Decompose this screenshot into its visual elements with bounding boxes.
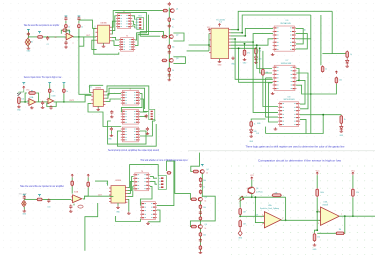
capacitor op2b fb — [49, 105, 52, 109]
wire mic bottom — [27, 45, 29, 48]
VCC arrow 555 — [218, 24, 220, 27]
wire vcc line to IC10 — [95, 181, 108, 186]
svg-text:10k: 10k — [266, 72, 269, 74]
connector SV3 — [158, 176, 166, 190]
op-amp IC9A — [71, 195, 82, 203]
wire T4 to SV2 b — [140, 115, 147, 117]
wire mic2 top — [23, 199, 25, 202]
wire T7 right loop — [148, 210, 160, 222]
IC IC4 LM386 — [91, 90, 105, 107]
wire Q4 chain down — [201, 174, 203, 198]
wire T1 to SV1 a — [132, 16, 136, 19]
wire T3 to T4 loop — [121, 94, 142, 112]
capacitor C3 — [64, 41, 67, 45]
svg-text:1u: 1u — [172, 27, 174, 29]
junction bus 4 — [234, 38, 236, 40]
wire tick to R14 — [63, 84, 65, 88]
resistor R37 — [313, 233, 316, 242]
resistor R10 — [168, 67, 171, 73]
LED D4 — [250, 127, 253, 134]
IC IC6 SN74AC04N — [273, 26, 296, 51]
supply tick rail op2b — [48, 83, 51, 85]
op-amp IC3A — [27, 99, 35, 106]
ground D4 — [249, 135, 253, 138]
light arrows — [239, 196, 244, 201]
wire rail1 — [65, 21, 67, 24]
wire IC6 loop a — [296, 28, 304, 44]
resistor R15 — [243, 49, 246, 57]
wire bus2 branch — [320, 15, 322, 65]
decoration op3 loop — [78, 205, 83, 208]
junction bus 2 — [241, 32, 243, 34]
resistor R24 — [167, 172, 172, 175]
svg-text:47k: 47k — [247, 52, 250, 54]
svg-text:C13: C13 — [47, 207, 50, 209]
wire 555 left rail — [208, 34, 210, 51]
svg-text:10k: 10k — [203, 180, 206, 182]
resistor R14 — [63, 88, 66, 94]
junction fb node — [316, 229, 318, 231]
wire 555 to IC6 pin b — [231, 34, 273, 43]
svg-text:1k: 1k — [206, 173, 208, 175]
wire T4 to SV2 — [140, 111, 147, 113]
ground C14 — [69, 210, 73, 213]
ground op2a — [30, 106, 34, 109]
capacitor C12 — [146, 127, 149, 131]
resistor R13 — [48, 88, 51, 94]
wire input to op-amp2a — [20, 101, 29, 103]
wire big bottom loop — [266, 115, 324, 134]
op-amp IC2A — [65, 33, 73, 40]
op-amp U1A — [263, 212, 281, 228]
wire op-amp to C3 — [65, 41, 67, 42]
svg-text:Q_Photo: Q_Photo — [256, 191, 263, 194]
wire bus to IC7 b — [260, 48, 272, 73]
wire stub IC7 c — [266, 77, 272, 79]
wire LED chain top — [251, 119, 265, 121]
wire IC4 left to T5 — [88, 104, 121, 127]
IC IC8 SN74LS164N — [278, 102, 300, 127]
junction 555 b — [238, 47, 240, 49]
junction op out — [285, 219, 287, 221]
wire stub left R17 — [322, 53, 332, 55]
resistor R19 — [340, 115, 343, 125]
wire 555 bus 2 — [231, 15, 311, 33]
VCC arrow R35 — [352, 172, 354, 175]
capacitor rail1 — [64, 17, 67, 21]
svg-text:1u: 1u — [203, 187, 205, 189]
wire divider to op-amp — [240, 215, 264, 217]
svg-text:1k9: 1k9 — [243, 211, 246, 213]
ground C12 — [146, 132, 150, 135]
wire IC7 out to rail — [296, 85, 311, 94]
resistor R32 1k9 — [239, 207, 242, 215]
svg-text:Second input circuit. The inpu: Second input circuit. The input is high … — [24, 75, 62, 79]
wire R34 down — [316, 197, 318, 230]
wire feedback right — [341, 216, 345, 233]
svg-text:6: 6 — [318, 223, 319, 225]
wire bottom loop left up — [265, 127, 267, 134]
wire T3 to SV2 — [140, 99, 149, 111]
op-amp IC3B — [47, 98, 54, 103]
wire IC4 gnd — [97, 106, 99, 108]
wire IC6 to bus2 — [296, 15, 311, 39]
wire photo emitter — [251, 194, 253, 197]
wire IC10 to T6 b — [127, 182, 133, 194]
wire bus to IC8 d — [268, 83, 278, 122]
wire feedback down — [285, 197, 287, 220]
transistor Q3 — [169, 59, 173, 63]
junction mix node — [78, 36, 80, 38]
resistor R9 — [161, 59, 167, 62]
ground C11 — [110, 134, 114, 137]
wire IC4 left up — [90, 85, 104, 92]
VCC arrow 555 left — [208, 29, 210, 32]
wire stub IC7 d — [268, 82, 272, 84]
microphone MIC1 — [25, 38, 31, 46]
wire right rail to T7 — [157, 161, 174, 206]
wire IC1 left loop to T2 bottom — [94, 29, 119, 55]
wire op2a to op2b — [36, 101, 48, 103]
wire R35 down — [352, 197, 354, 216]
transformer T5 — [121, 127, 140, 142]
capacitor C16 — [199, 211, 202, 215]
junction photo b — [255, 196, 257, 198]
svg-text:1k: 1k — [52, 91, 54, 93]
wire op2a feedback left — [25, 93, 27, 102]
junction plus node — [316, 211, 318, 213]
wire input A to 555 — [189, 44, 209, 46]
wire tick to R13 — [49, 84, 51, 88]
svg-text:LM386: LM386 — [115, 180, 121, 182]
wire R1 to op-amp — [43, 36, 66, 38]
transformer T2 — [119, 38, 135, 52]
svg-text:SN74AC04N: SN74AC04N — [280, 22, 291, 25]
ground IC7 — [271, 92, 275, 95]
svg-text:o: o — [73, 43, 74, 45]
wire op2a feedback right — [36, 93, 39, 102]
supply tick R21 — [38, 195, 41, 197]
wire op3 out to IC10 — [83, 196, 111, 199]
wire IC1 to T1 pin1 — [112, 16, 117, 31]
wire T2 loop to top — [115, 12, 146, 40]
wire mic2 to R21 — [24, 198, 37, 200]
wire IC7 loop a — [296, 69, 299, 81]
svg-text:1k: 1k — [344, 119, 346, 121]
svg-text:1k: 1k — [350, 54, 352, 56]
LED D3 — [340, 125, 343, 130]
svg-text:1k: 1k — [254, 123, 256, 125]
resistor R2 feedback — [62, 29, 68, 32]
svg-text:Take the sound file we inputte: Take the sound file we inputted to our a… — [20, 185, 64, 188]
transformer T4 — [121, 109, 140, 124]
svg-text:Three logic gates and a shift: Three logic gates and a shift register a… — [246, 146, 346, 149]
wire left into chain mid — [140, 31, 163, 36]
wire rail1 to op-amp — [65, 29, 67, 33]
wire U1A out to U1B — [281, 219, 321, 222]
resistor R22 — [71, 180, 74, 187]
resistor R30b — [199, 245, 202, 251]
VCC arrow photo — [251, 177, 253, 180]
resistor R31 22k — [272, 194, 282, 197]
wire left rail into Q5 — [167, 161, 192, 199]
svg-text:1.2k: 1.2k — [356, 192, 359, 194]
junction R14 out — [63, 101, 65, 103]
svg-text:LM386: LM386 — [100, 23, 107, 25]
wire T6 to T7 — [140, 187, 152, 206]
wire feedback left — [61, 30, 62, 34]
wire 555 out top bus — [231, 11, 333, 29]
resistor R33 1k9 — [239, 219, 242, 228]
ground C3 — [64, 45, 68, 48]
wire Q2 loop right — [173, 33, 184, 41]
wire IC1 to T1 pin3 — [112, 21, 117, 34]
wire R24 up — [166, 161, 168, 171]
svg-text:1k: 1k — [205, 228, 207, 230]
wire T6 to SV3 b — [150, 182, 157, 185]
LED D1 — [254, 55, 257, 61]
wire bus to IC8 c — [266, 78, 278, 117]
junction IC7 — [298, 80, 300, 82]
connector SV1 — [135, 18, 143, 30]
wire T1 to SV1 b — [132, 21, 136, 24]
junction feedback tap — [344, 215, 346, 217]
svg-text:Q1: Q1 — [176, 8, 178, 10]
wire T1 to SV1 c — [132, 26, 136, 28]
wire VCC to photo — [251, 180, 253, 187]
ground D3 — [340, 130, 344, 133]
svg-text:2: 2 — [262, 214, 263, 216]
ground mic — [27, 47, 31, 50]
wire U1B output — [339, 215, 375, 217]
svg-text:3: 3 — [262, 223, 263, 225]
transformer T1 — [116, 14, 132, 29]
wire R20 to rail — [311, 84, 337, 94]
wire bus to IC7 a — [257, 45, 272, 68]
resistor R8 — [168, 44, 171, 50]
feedback loop op2b — [47, 102, 56, 107]
wire 555 down to IC7 a — [231, 39, 273, 79]
capacitor C2 — [46, 36, 49, 40]
svg-text:10k: 10k — [203, 207, 206, 209]
svg-text:Q4: Q4 — [206, 169, 208, 171]
resistor R27b — [199, 216, 202, 221]
ground diamond R33 — [238, 228, 242, 236]
capacitor C7 — [168, 73, 171, 77]
wire long L down — [85, 203, 98, 251]
svg-text:Q6: Q6 — [256, 188, 258, 190]
quadrant boundary line — [188, 150, 375, 152]
resistor R36 1M — [335, 232, 345, 235]
wire VCC to switch — [19, 89, 24, 93]
op-amp U1B — [319, 207, 339, 225]
svg-text:Sparkfun_Dual_OpAmp: Sparkfun_Dual_OpAmp — [260, 207, 279, 210]
transistor Q1 — [170, 9, 174, 13]
wire T5 left big loop — [117, 124, 156, 146]
svg-text:LM386: LM386 — [95, 87, 101, 89]
wire op3 gnd stub — [73, 204, 75, 206]
svg-text:10k: 10k — [339, 80, 342, 82]
wire IC4 to T3 b — [105, 99, 121, 101]
wire IC4 top loop — [105, 86, 148, 109]
ground IC8 — [274, 127, 278, 130]
capacitor C16b — [199, 238, 202, 242]
ground R15 — [243, 58, 247, 61]
wire IC10 to T6 c — [127, 187, 133, 197]
ground Q6 chain — [199, 251, 203, 254]
wire R21 to op-amp3 — [43, 198, 72, 200]
ground IC4 — [96, 108, 100, 111]
svg-text:SN74HC08N: SN74HC08N — [281, 63, 292, 65]
svg-text:M1: M1 — [31, 41, 33, 43]
resistor R29 — [190, 225, 197, 228]
capacitor mic2 — [23, 195, 26, 199]
resistor R25 — [192, 170, 199, 173]
supply tick rail1 — [65, 16, 68, 18]
wire photo node right — [252, 196, 286, 198]
ground IC1 — [102, 45, 106, 48]
wire IC1 to chain top — [112, 11, 164, 28]
wire IC10 gnd — [117, 203, 119, 206]
wire left chain lower — [140, 35, 160, 37]
wire T2 second loop — [135, 15, 149, 46]
wire into Q2 — [162, 36, 168, 38]
wire IC4 second loop — [105, 88, 144, 109]
ground 555 side — [231, 57, 235, 60]
junction divider — [239, 215, 241, 217]
capacitor rail2 — [77, 17, 80, 21]
resistor R4 — [78, 23, 81, 28]
capacitor C9 — [110, 110, 113, 114]
wire Q6 chain down — [199, 229, 201, 251]
wire from top into Q4 — [191, 153, 200, 172]
wire IC1 to T2 pin2 — [112, 41, 120, 46]
svg-text:Second amp circuit, amplifies: Second amp circuit, amplifies the noise … — [108, 149, 160, 152]
capacitor C11 — [110, 127, 113, 131]
wire mic to R1 — [28, 36, 37, 38]
svg-text:1: 1 — [282, 218, 283, 220]
svg-text:1k: 1k — [81, 26, 83, 28]
wire IC8 pin right — [300, 114, 312, 116]
resistor R12 — [18, 96, 21, 104]
resistor R18 — [321, 65, 324, 73]
resistor R39 — [250, 121, 253, 128]
svg-text:1k: 1k — [325, 69, 327, 71]
wire IC7 to IC8 — [299, 80, 305, 104]
junction right rail — [310, 93, 312, 95]
junction bus 6 — [256, 44, 258, 46]
wire IC10 top loop — [127, 165, 158, 188]
junction 555 left — [208, 44, 210, 46]
resistor R17 — [346, 50, 349, 58]
svg-text:1k: 1k — [66, 91, 68, 93]
svg-text:Q5: Q5 — [205, 197, 207, 199]
svg-text:10k: 10k — [21, 99, 24, 101]
svg-text:1k: 1k — [172, 70, 174, 72]
wire R23 to out — [84, 188, 88, 197]
wire 555 to IC6 pin c — [231, 39, 273, 45]
ground IC10 — [116, 206, 120, 209]
wire mix rail down to IC4 — [79, 29, 92, 95]
wire T5 bottom loop — [108, 121, 146, 144]
VCC arrow R34 — [316, 172, 318, 175]
wire top bus down to R17 — [332, 11, 347, 53]
ground R37 — [313, 243, 317, 246]
transistor Q4 — [200, 170, 204, 174]
svg-text:SN74LS164N: SN74LS164N — [284, 99, 296, 101]
svg-text:OUT2: OUT2 — [69, 100, 74, 102]
wire left chain join — [139, 31, 141, 36]
transistor Q2 — [169, 35, 173, 39]
connector SV2 — [149, 109, 155, 119]
wire IC7 to IC8 b — [296, 73, 308, 109]
ground IC10 out — [127, 212, 131, 215]
ground D2 — [345, 65, 349, 68]
supply tick rail2 — [78, 16, 81, 18]
wire VCC3b down — [87, 177, 89, 181]
resistor R6 — [168, 17, 171, 23]
resistor R26b — [199, 189, 202, 194]
svg-text:10k: 10k — [172, 19, 175, 21]
switch S1 — [17, 93, 21, 96]
wire 555 pin to R16 — [231, 47, 256, 48]
capacitor C6 — [168, 50, 171, 54]
resistor R20 — [335, 77, 338, 85]
wire rail2 — [78, 21, 80, 24]
wire 555 to IC6 pin — [231, 28, 273, 36]
capacitor C13 — [47, 199, 50, 203]
svg-text:Q2: Q2 — [176, 34, 178, 36]
VCC arrow X2 — [23, 86, 25, 89]
resistor R16 — [255, 48, 258, 56]
transformer T7 — [140, 202, 157, 220]
resistor R26 — [199, 177, 202, 183]
wire 555 down to IC7 b — [239, 48, 273, 82]
wire photo to plus input — [255, 197, 264, 222]
svg-text:T2: T2 — [126, 36, 128, 38]
wire bus to IC8 b — [253, 42, 278, 112]
ground LED — [254, 61, 258, 64]
wire chain vertical rail — [168, 8, 170, 79]
resistor R35 1.2k — [352, 188, 355, 197]
svg-text:Q6: Q6 — [205, 224, 207, 226]
wire T7 bottom loop — [116, 216, 141, 222]
junction bus 3 — [244, 35, 246, 37]
resistor R11 feedback — [28, 92, 36, 95]
resistor R38 — [262, 68, 265, 76]
wire VCC to R35 — [352, 175, 354, 188]
VCC arrow op3 a — [71, 174, 73, 177]
supply tick mic2 — [23, 195, 26, 197]
wire feedback left — [317, 232, 336, 234]
resistor R23 — [87, 181, 90, 188]
resistor R28 — [190, 198, 197, 201]
phototransistor Q6 — [248, 187, 255, 194]
svg-text:T3: T3 — [129, 88, 131, 90]
ground IC6 — [271, 53, 275, 56]
wire R15 top — [244, 44, 246, 49]
capacitor chain top — [168, 2, 171, 6]
svg-text:10k: 10k — [172, 46, 175, 48]
svg-text:C2: C2 — [46, 44, 48, 46]
wire loop to R19 — [323, 114, 341, 116]
svg-text:1k9: 1k9 — [243, 224, 246, 226]
wire bus to IC8 a — [263, 51, 278, 107]
ground C9 — [110, 115, 114, 118]
wire to R37 — [315, 230, 318, 233]
transistor Q5 — [199, 197, 203, 201]
capacitor mic coupling — [27, 32, 30, 36]
